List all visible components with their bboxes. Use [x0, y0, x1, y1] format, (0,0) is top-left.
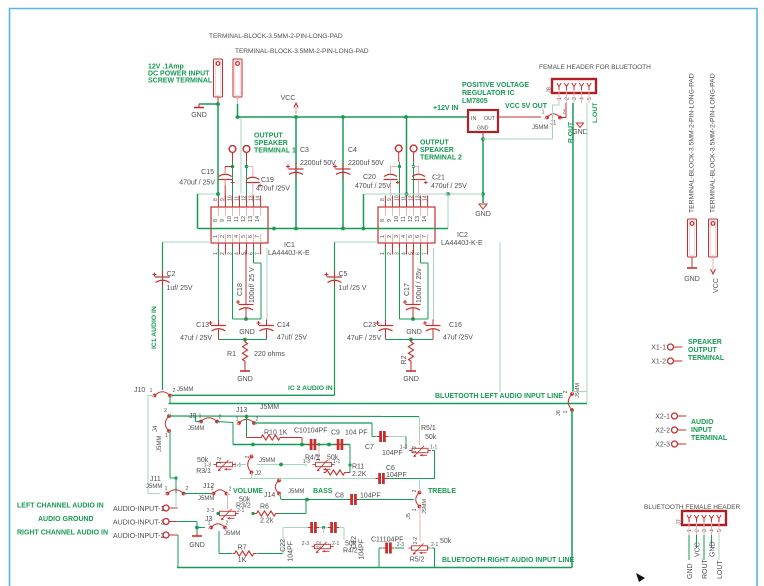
svg-text:X2-3: X2-3: [655, 442, 670, 449]
svg-text:8: 8: [213, 219, 219, 222]
svg-text:1-1: 1-1: [234, 463, 241, 469]
svg-text:R5/2: R5/2: [410, 557, 425, 564]
svg-text:10: 10: [227, 195, 233, 201]
svg-text:12V .1Amp: 12V .1Amp: [148, 64, 184, 71]
svg-text:X2-2: X2-2: [655, 428, 670, 435]
svg-text:2: 2: [220, 252, 226, 255]
svg-text:104PF: 104PF: [360, 493, 381, 500]
svg-text:C4: C4: [348, 147, 357, 154]
svg-text:2: 2: [219, 415, 222, 421]
svg-text:4: 4: [234, 235, 240, 238]
svg-text:2200uf 50V: 2200uf 50V: [348, 160, 384, 167]
svg-text:2: 2: [229, 487, 232, 493]
svg-text:2.2k: 2.2k: [260, 518, 274, 525]
svg-text:2: 2: [164, 408, 167, 414]
svg-text:3: 3: [227, 235, 233, 238]
svg-text:IC 2 AUDIO IN: IC 2 AUDIO IN: [288, 385, 333, 392]
svg-text:C2: C2: [167, 271, 176, 278]
svg-text:GND: GND: [475, 211, 491, 218]
svg-text:14: 14: [422, 195, 428, 201]
svg-text:BASS: BASS: [313, 488, 333, 495]
svg-text:C22: C22: [280, 539, 287, 552]
svg-text:2: 2: [186, 486, 189, 492]
svg-text:9: 9: [220, 198, 226, 201]
svg-text:LA4440J-K-E: LA4440J-K-E: [441, 240, 483, 247]
svg-text:4: 4: [234, 252, 240, 255]
svg-text:7: 7: [255, 235, 261, 238]
svg-text:1-3: 1-3: [303, 459, 310, 465]
svg-text:OUTPUT: OUTPUT: [254, 133, 284, 140]
svg-text:LA4440J-K-E: LA4440J-K-E: [268, 250, 310, 257]
svg-text:C14: C14: [277, 322, 290, 329]
svg-text:2-1: 2-1: [431, 542, 438, 548]
svg-text:100uf/ 25 V: 100uf/ 25 V: [249, 267, 256, 303]
svg-text:1-2: 1-2: [217, 457, 223, 464]
svg-text:TERMINAL 1: TERMINAL 1: [254, 148, 296, 155]
svg-text:ROUT: ROUT: [702, 558, 709, 579]
svg-text:C5: C5: [339, 271, 348, 278]
svg-text:2-3: 2-3: [302, 541, 309, 547]
svg-text:AUDIO: AUDIO: [691, 419, 714, 426]
svg-text:470uf / 25V: 470uf / 25V: [431, 183, 467, 190]
svg-text:104PF: 104PF: [288, 541, 295, 562]
svg-text:POSITIVE VOLTAGE: POSITIVE VOLTAGE: [462, 82, 529, 89]
svg-text:GND: GND: [710, 541, 717, 557]
svg-text:12: 12: [241, 195, 247, 201]
svg-text:47uf /25V: 47uf /25V: [443, 335, 473, 342]
svg-text:VCC: VCC: [281, 95, 296, 102]
svg-text:TERMINAL-BLOCK-3.5MM-2-PIN-LON: TERMINAL-BLOCK-3.5MM-2-PIN-LONG-PAD: [209, 33, 343, 40]
svg-text:5: 5: [587, 97, 593, 100]
svg-text:104PF: 104PF: [359, 539, 366, 560]
svg-text:J1: J1: [550, 121, 557, 127]
svg-text:12: 12: [408, 195, 414, 201]
svg-text:SCREW TERMINAL: SCREW TERMINAL: [148, 78, 213, 85]
svg-text:VCC: VCC: [695, 542, 702, 557]
svg-text:J5MM: J5MM: [146, 484, 162, 490]
svg-text:10: 10: [394, 195, 400, 201]
svg-text:GND: GND: [403, 376, 419, 383]
svg-text:C8: C8: [335, 493, 344, 500]
svg-text:AUDIO-INPUT-1: AUDIO-INPUT-1: [113, 506, 164, 513]
svg-text:RIGHT CHANNEL AUDIO IN: RIGHT CHANNEL AUDIO IN: [17, 530, 108, 537]
svg-text:2-1: 2-1: [237, 508, 244, 514]
svg-text:104PF: 104PF: [386, 472, 407, 479]
svg-text:12: 12: [241, 216, 247, 222]
svg-text:J5MM: J5MM: [224, 531, 240, 537]
svg-text:GND: GND: [477, 126, 489, 132]
svg-text:TREBLE: TREBLE: [428, 488, 456, 495]
svg-text:C17: C17: [404, 283, 411, 296]
svg-text:2: 2: [245, 455, 251, 458]
svg-text:C20: C20: [363, 174, 376, 181]
svg-text:1: 1: [687, 529, 693, 532]
svg-text:+12V IN: +12V IN: [433, 105, 459, 112]
svg-text:10: 10: [394, 216, 400, 222]
svg-text:50k: 50k: [440, 538, 452, 545]
svg-text:IC1 AUDIO IN: IC1 AUDIO IN: [151, 306, 158, 349]
svg-text:AUDIO-INPUT-3: AUDIO-INPUT-3: [113, 520, 164, 527]
svg-text:47uf/ 25V: 47uf/ 25V: [277, 335, 307, 342]
svg-text:2-3: 2-3: [207, 508, 214, 514]
svg-text:1: 1: [208, 521, 211, 527]
svg-text:470uf / 25V: 470uf / 25V: [179, 180, 215, 187]
svg-text:R6: R6: [260, 504, 269, 511]
svg-text:1: 1: [557, 97, 563, 100]
svg-text:X2-1: X2-1: [655, 414, 670, 421]
svg-text:C18: C18: [237, 283, 244, 296]
svg-text:1: 1: [199, 414, 202, 420]
svg-text:2: 2: [695, 529, 701, 532]
svg-text:1uf/ 25V: 1uf/ 25V: [167, 285, 193, 292]
svg-text:R4/2: R4/2: [343, 548, 358, 555]
svg-text:J11: J11: [150, 476, 161, 483]
svg-text:GND: GND: [237, 376, 253, 383]
svg-text:2: 2: [565, 97, 571, 100]
svg-text:6: 6: [415, 235, 421, 238]
svg-text:1: 1: [563, 410, 569, 413]
svg-text:J5MM: J5MM: [157, 436, 163, 452]
svg-text:AUDIO GROUND: AUDIO GROUND: [38, 516, 94, 523]
svg-text:C16: C16: [449, 322, 462, 329]
svg-text:VOLUME: VOLUME: [233, 488, 263, 495]
svg-text:J14: J14: [264, 492, 275, 499]
svg-text:SPEAKER: SPEAKER: [420, 147, 454, 154]
svg-text:J4: J4: [153, 425, 159, 432]
svg-text:2: 2: [173, 388, 176, 394]
svg-text:9: 9: [220, 219, 226, 222]
svg-text:L.OUT: L.OUT: [592, 102, 599, 123]
svg-text:4: 4: [580, 97, 586, 100]
svg-text:J5: J5: [406, 513, 412, 519]
svg-text:1: 1: [542, 110, 545, 116]
svg-text:C23: C23: [363, 322, 376, 329]
svg-text:220 ohms: 220 ohms: [254, 351, 285, 358]
svg-text:J5MM: J5MM: [532, 125, 548, 131]
svg-text:AUDIO-INPUT-2: AUDIO-INPUT-2: [113, 533, 164, 540]
svg-text:SPEAKER: SPEAKER: [254, 140, 288, 147]
svg-text:R3/1: R3/1: [196, 468, 211, 475]
svg-text:TERMINAL-BLOCK-3.5MM-2-PIN-LON: TERMINAL-BLOCK-3.5MM-2-PIN-LONG-PAD: [710, 73, 717, 213]
svg-text:1: 1: [380, 235, 386, 238]
svg-text:IC2: IC2: [457, 232, 468, 239]
svg-text:J7: J7: [677, 519, 683, 525]
svg-text:11: 11: [401, 196, 407, 201]
svg-text:C6: C6: [386, 465, 395, 472]
svg-text:1: 1: [165, 433, 168, 439]
svg-text:J5MM: J5MM: [422, 499, 428, 514]
svg-text:13: 13: [248, 216, 254, 222]
svg-text:14: 14: [255, 195, 261, 201]
svg-text:C7: C7: [365, 444, 374, 451]
svg-text:12: 12: [408, 216, 414, 222]
svg-text:14: 14: [422, 216, 428, 222]
svg-text:1-3: 1-3: [400, 445, 407, 451]
svg-text:14: 14: [255, 216, 261, 222]
svg-text:OUTPUT: OUTPUT: [420, 140, 450, 147]
svg-text:1uf /25 V: 1uf /25 V: [339, 285, 367, 292]
svg-text:C9: C9: [331, 430, 340, 437]
svg-text:2: 2: [220, 235, 226, 238]
svg-text:1: 1: [412, 508, 418, 511]
svg-text:J5MM: J5MM: [260, 404, 279, 411]
svg-text:J5MM: J5MM: [575, 383, 581, 398]
svg-text:1K: 1K: [238, 557, 247, 564]
svg-text:J5MM: J5MM: [288, 489, 304, 495]
svg-text:J5MM: J5MM: [188, 426, 204, 432]
svg-text:R2: R2: [401, 355, 408, 364]
svg-text:2-1: 2-1: [332, 541, 339, 547]
svg-text:1: 1: [165, 486, 168, 492]
svg-text:GND: GND: [687, 563, 694, 579]
svg-text:7: 7: [422, 252, 428, 255]
svg-text:TERMINAL-BLOCK-3.5MM-2-PIN-LON: TERMINAL-BLOCK-3.5MM-2-PIN-LONG-PAD: [689, 73, 696, 213]
svg-text:2.2K: 2.2K: [352, 471, 367, 478]
svg-text:7: 7: [422, 235, 428, 238]
svg-text:J8: J8: [547, 87, 553, 93]
svg-text:11: 11: [234, 216, 240, 222]
svg-text:R5/1: R5/1: [421, 425, 436, 432]
svg-text:2200uf 50V: 2200uf 50V: [300, 160, 336, 167]
svg-text:1: 1: [211, 486, 214, 492]
svg-text:13: 13: [248, 195, 254, 201]
svg-text:1: 1: [236, 417, 239, 423]
svg-text:J5MM: J5MM: [177, 387, 193, 393]
svg-text:TERMINAL-BLOCK-3.5MM-2-PIN-LON: TERMINAL-BLOCK-3.5MM-2-PIN-LONG-PAD: [235, 48, 369, 55]
svg-text:1-1: 1-1: [430, 445, 437, 451]
svg-text:TERMINAL: TERMINAL: [691, 435, 728, 442]
svg-text:50k: 50k: [345, 541, 357, 548]
svg-text:47uF / 25V: 47uF / 25V: [347, 335, 382, 342]
svg-text:1: 1: [150, 388, 153, 394]
svg-text:104 PF: 104 PF: [345, 430, 368, 437]
svg-text:FEMALE HEADER FOR BLUETOOTH: FEMALE HEADER FOR BLUETOOTH: [539, 64, 651, 71]
svg-text:13: 13: [415, 195, 421, 201]
svg-text:GND: GND: [189, 542, 205, 549]
svg-text:TERMINAL: TERMINAL: [688, 355, 725, 362]
svg-text:VCC: VCC: [713, 278, 720, 293]
svg-text:GND: GND: [191, 112, 207, 119]
svg-text:SPEAKER: SPEAKER: [688, 339, 722, 346]
svg-text:J10: J10: [134, 387, 145, 394]
svg-text:2-3: 2-3: [397, 542, 404, 548]
svg-text:2: 2: [256, 417, 259, 423]
svg-text:INPUT: INPUT: [691, 427, 713, 434]
svg-text:9: 9: [387, 198, 393, 201]
svg-text:R7: R7: [238, 545, 247, 552]
svg-text:100uf / 25v: 100uf / 25v: [416, 268, 423, 303]
svg-text:11: 11: [234, 196, 240, 201]
svg-text:4: 4: [401, 235, 407, 238]
svg-text:11: 11: [401, 216, 407, 222]
svg-text:47uf / 25V: 47uf / 25V: [180, 335, 212, 342]
svg-text:LM7805: LM7805: [462, 98, 488, 105]
svg-text:7: 7: [255, 252, 261, 255]
svg-text:LOUT: LOUT: [717, 560, 724, 579]
svg-text:5: 5: [408, 235, 414, 238]
svg-text:GND: GND: [239, 329, 255, 336]
svg-text:J5MM: J5MM: [259, 458, 275, 464]
svg-text:J5MM: J5MM: [198, 496, 214, 502]
svg-text:2: 2: [563, 110, 566, 116]
svg-text:DC POWER INPUT: DC POWER INPUT: [148, 71, 210, 78]
svg-text:X1-1: X1-1: [651, 345, 666, 352]
svg-text:2: 2: [226, 521, 229, 527]
svg-text:J13: J13: [236, 407, 247, 414]
svg-text:8: 8: [213, 198, 219, 201]
svg-text:13: 13: [415, 216, 421, 222]
svg-text:C3: C3: [300, 147, 309, 154]
svg-text:3: 3: [572, 97, 578, 100]
svg-text:C19: C19: [261, 177, 274, 184]
svg-text:J6: J6: [556, 410, 562, 416]
svg-text:1: 1: [213, 235, 219, 238]
svg-text:OUTPUT: OUTPUT: [688, 347, 718, 354]
svg-text:R1: R1: [227, 351, 236, 358]
svg-text:X1-2: X1-2: [651, 359, 666, 366]
svg-text:470uf / 25V: 470uf / 25V: [355, 183, 391, 190]
svg-text:2: 2: [387, 235, 393, 238]
svg-text:1-2: 1-2: [412, 446, 418, 453]
svg-text:1-1: 1-1: [333, 459, 340, 465]
svg-text:2: 2: [412, 489, 418, 492]
svg-text:C13: C13: [196, 322, 209, 329]
svg-text:2: 2: [387, 252, 393, 255]
svg-text:4: 4: [710, 529, 716, 532]
svg-text:TERMINAL 2: TERMINAL 2: [420, 155, 462, 162]
svg-text:2-2: 2-2: [413, 537, 419, 544]
svg-text:4: 4: [401, 252, 407, 255]
svg-text:IN: IN: [471, 116, 476, 122]
svg-text:5: 5: [717, 529, 723, 532]
svg-text:2: 2: [563, 390, 569, 393]
svg-text:9: 9: [387, 219, 393, 222]
svg-text:470uf /25V: 470uf /25V: [256, 186, 290, 193]
svg-text:C10104PF: C10104PF: [294, 428, 327, 435]
svg-text:J2: J2: [255, 471, 262, 477]
svg-text:8: 8: [380, 219, 386, 222]
svg-text:LEFT CHANNEL AUDIO IN: LEFT CHANNEL AUDIO IN: [17, 503, 104, 510]
svg-text:GND: GND: [572, 129, 588, 136]
svg-text:104PF: 104PF: [382, 450, 403, 457]
svg-text:GND: GND: [406, 329, 422, 336]
svg-text:R11: R11: [352, 464, 364, 471]
svg-text:C15: C15: [201, 169, 214, 176]
svg-text:50k: 50k: [425, 434, 437, 441]
svg-text:6: 6: [248, 235, 254, 238]
svg-text:GND: GND: [684, 276, 700, 283]
svg-text:5: 5: [241, 235, 247, 238]
svg-text:REGULATOR IC: REGULATOR IC: [462, 90, 515, 97]
svg-text:3: 3: [394, 235, 400, 238]
svg-text:3: 3: [702, 529, 708, 532]
svg-text:10: 10: [227, 216, 233, 222]
svg-text:BLUETOOTH RIGHT AUDIO INPUT LI: BLUETOOTH RIGHT AUDIO INPUT LINE: [442, 557, 575, 564]
svg-text:IC1: IC1: [284, 242, 295, 249]
svg-text:8: 8: [380, 198, 386, 201]
svg-text:OUT: OUT: [484, 116, 496, 122]
svg-text:BLUETOOTH LEFT AUDIO INPUT LIN: BLUETOOTH LEFT AUDIO INPUT LINE: [435, 393, 563, 400]
svg-text:C21: C21: [432, 175, 445, 182]
